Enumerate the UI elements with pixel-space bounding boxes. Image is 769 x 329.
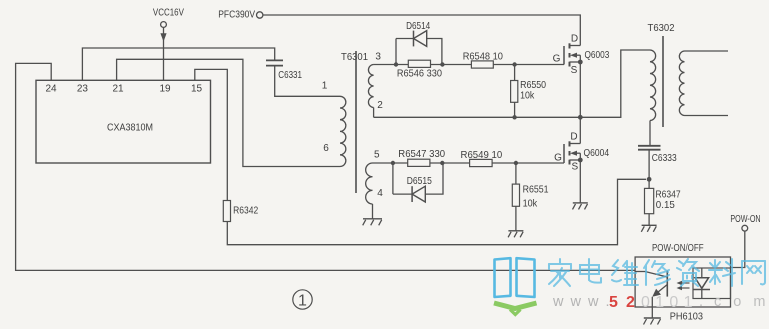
wire R6548 to Q6003 gate xyxy=(493,64,564,66)
label R6551 value 10k xyxy=(523,197,538,209)
wire VCC16V vertical to pin 19 xyxy=(163,27,165,80)
transistor Q6004 xyxy=(564,141,583,164)
svg-text:D6514: D6514 xyxy=(406,20,430,32)
label R6551 xyxy=(523,184,549,196)
optocoupler PH6103 LED inner box xyxy=(693,268,731,299)
svg-text:0: 0 xyxy=(641,294,650,311)
wire C6331 to T6301 pin 1 xyxy=(275,66,340,97)
node junction dot R6546 right xyxy=(440,62,444,66)
label R6550 xyxy=(520,79,546,91)
pin 15 label xyxy=(191,83,203,94)
svg-text:2: 2 xyxy=(377,100,383,111)
pin 6 label xyxy=(323,143,329,154)
svg-text:4: 4 xyxy=(377,188,383,199)
wire midpoint to Q6004 drain xyxy=(579,117,581,143)
svg-text:C6333: C6333 xyxy=(652,152,677,164)
svg-text:R6548 10: R6548 10 xyxy=(463,50,503,62)
svg-text:D6515: D6515 xyxy=(407,175,432,187)
wire pin 15 to R6342 xyxy=(195,69,228,200)
resistor R6547 xyxy=(408,159,430,166)
photo-thyristor collector stub xyxy=(635,271,645,273)
optical coupling arrows xyxy=(677,281,690,291)
ground under R6551 xyxy=(508,231,523,238)
wire T6302 secondary bottom output xyxy=(685,115,729,117)
wire R6342 to current-sense node xyxy=(227,179,646,244)
pin label G Q6004 xyxy=(554,152,562,163)
watermark: book logo xyxy=(495,258,535,297)
node junction dot half-bridge midpoint xyxy=(578,115,583,120)
ground under T6301 pin 4 xyxy=(363,219,382,226)
wire pin 23 to C6331 xyxy=(82,48,274,80)
node junction dot sense node xyxy=(647,177,652,182)
node junction dot R6547 left xyxy=(391,161,395,165)
svg-text:G: G xyxy=(553,53,561,64)
node POW-ON terminal circle xyxy=(742,225,748,231)
svg-text:10k: 10k xyxy=(520,89,535,101)
pin 1 label xyxy=(322,81,328,92)
LED diode of PH6103 xyxy=(694,278,711,299)
label Q6004 xyxy=(584,147,610,159)
svg-text:G: G xyxy=(554,152,562,163)
svg-text:D: D xyxy=(570,131,577,142)
pin label D Q6004 xyxy=(570,131,577,142)
svg-text:T6301: T6301 xyxy=(341,51,368,63)
photo-thyristor of PH6103 xyxy=(645,271,667,297)
svg-text:CXA3810M: CXA3810M xyxy=(107,122,153,134)
capacitor C6333 xyxy=(638,146,661,150)
transformer T6301 secondary winding 3-2 xyxy=(368,65,373,118)
label PH6103 xyxy=(670,311,703,323)
label T6301 xyxy=(341,51,368,63)
svg-text:15: 15 xyxy=(191,83,203,94)
resistor R6551 xyxy=(512,163,519,231)
watermark url 0101 xyxy=(641,294,693,311)
wire POW-ON to optocoupler LED xyxy=(731,231,745,267)
figure number 1 circled xyxy=(293,290,312,310)
node junction dot R6547 right xyxy=(440,161,444,165)
wire R6547 to R6549 xyxy=(430,162,470,164)
svg-text:19: 19 xyxy=(159,83,171,94)
svg-text:T6302: T6302 xyxy=(648,22,675,34)
transformer T6301 secondary winding 5-4 xyxy=(366,163,373,219)
svg-text:21: 21 xyxy=(112,83,124,94)
node VCC16V terminal circle xyxy=(161,22,167,28)
transformer T6301 core xyxy=(355,51,357,193)
wire midpoint rail xyxy=(374,50,650,117)
node junction dot R6546 left xyxy=(394,62,398,66)
svg-text:Q6003: Q6003 xyxy=(585,49,610,61)
diode D6514 xyxy=(414,31,427,47)
label R6547 330 xyxy=(398,148,445,160)
watermark character wei xyxy=(612,260,638,285)
diode D6514 loop wire xyxy=(396,39,442,65)
svg-text:R6549 10: R6549 10 xyxy=(461,149,503,161)
IC label CXA3810M xyxy=(107,122,153,134)
watermark url www xyxy=(552,294,611,310)
diode D6515 loop wire xyxy=(393,163,443,194)
svg-text:2: 2 xyxy=(626,294,635,311)
svg-text:R6547 330: R6547 330 xyxy=(398,148,445,160)
svg-text:c o m: c o m xyxy=(714,294,769,310)
label C6333 xyxy=(652,152,677,164)
svg-text:VCC16V: VCC16V xyxy=(153,7,184,19)
label D6515 xyxy=(407,175,432,187)
transformer T6302 secondary winding xyxy=(679,51,684,116)
svg-text:24: 24 xyxy=(45,83,57,94)
svg-text:PFC390V: PFC390V xyxy=(218,9,255,21)
wire R6347 to ground xyxy=(648,214,650,225)
transistor Q6003 xyxy=(564,43,583,66)
node junction dot R6550 bottom xyxy=(512,115,516,119)
node junction dot R6551 top xyxy=(514,161,518,165)
label R6546 330 xyxy=(397,68,442,80)
pin label D Q6003 xyxy=(571,33,578,44)
svg-text:6: 6 xyxy=(323,143,329,154)
node junction dot R6550 top xyxy=(512,62,516,66)
svg-text:Q6004: Q6004 xyxy=(584,147,610,159)
svg-text:23: 23 xyxy=(77,83,89,94)
ground under Q6004 xyxy=(573,203,588,210)
svg-text:5: 5 xyxy=(609,294,618,311)
wire Q6003 source to midpoint rail xyxy=(579,62,581,117)
pin 2 label xyxy=(377,100,383,111)
resistor R6550 xyxy=(511,65,518,118)
watermark url 52 red xyxy=(609,294,635,311)
svg-text:0.15: 0.15 xyxy=(656,199,675,211)
svg-text:w w w .: w w w . xyxy=(552,294,611,310)
label Q6003 xyxy=(585,49,610,61)
label R6347 value 0.15 xyxy=(656,199,675,211)
svg-text:R6342: R6342 xyxy=(233,205,258,217)
optocoupler PH6103 body xyxy=(635,257,730,307)
svg-text:S: S xyxy=(571,65,578,76)
svg-text:1: 1 xyxy=(322,81,328,92)
pin 4 label xyxy=(377,188,383,199)
label C6331 xyxy=(278,69,302,81)
label R6550 value 10k xyxy=(520,89,535,101)
wire Q6004 source to ground xyxy=(579,160,581,203)
resistor R6549 xyxy=(470,159,493,166)
wire PFC390V rail to Q6003 drain xyxy=(263,15,580,46)
label R6549 10 xyxy=(461,149,503,161)
node VCC16V supply label xyxy=(153,7,184,19)
watermark character dian xyxy=(580,259,601,283)
pin label G Q6003 xyxy=(553,53,561,64)
ground under PH6103 xyxy=(644,318,661,325)
wire pin 21 to T6301 pin 6 xyxy=(117,59,340,166)
wire pin 24 feedback loop xyxy=(16,63,636,270)
pin 24 label xyxy=(45,83,57,94)
label R6342 xyxy=(233,205,258,217)
resistor R6342 xyxy=(223,201,230,222)
label POW-ON/OFF xyxy=(652,242,704,254)
svg-text:0: 0 xyxy=(669,294,678,311)
svg-text:1: 1 xyxy=(298,293,307,310)
resistor R6347 xyxy=(645,188,654,213)
resistor R6546 xyxy=(408,60,430,67)
op-amp U1 CXA3810M IC body xyxy=(36,80,211,163)
pin 23 label xyxy=(77,83,89,94)
wire R6549 to Q6004 gate xyxy=(492,162,564,164)
transformer T6302 core xyxy=(662,36,664,127)
capacitor C6331 xyxy=(266,60,283,65)
transformer T6302 primary winding xyxy=(650,50,656,121)
wire T6302 primary bottom to C6333 xyxy=(649,121,651,146)
diode D6515 xyxy=(412,186,425,202)
pin 21 label xyxy=(112,83,124,94)
watermark url .com xyxy=(699,294,769,310)
watermark character wang xyxy=(742,261,765,284)
label D6514 xyxy=(406,20,430,32)
transformer T6301 primary winding pins 1-6 xyxy=(340,96,346,166)
svg-text:R6546 330: R6546 330 xyxy=(397,68,442,80)
svg-text:1: 1 xyxy=(684,294,693,311)
LED anode stub xyxy=(701,268,703,278)
watermark character jia xyxy=(549,259,571,286)
pin label S Q6003 xyxy=(571,65,578,76)
pin 5 label xyxy=(374,149,380,160)
wire R6546 to R6548 xyxy=(431,64,472,66)
wire C6333 to R6347 xyxy=(648,150,650,189)
label R6548 10 xyxy=(463,50,503,62)
wire winding 5 row xyxy=(373,162,408,164)
watermark: green ribbon xyxy=(494,303,537,315)
svg-text:POW-ON/OFF: POW-ON/OFF xyxy=(652,242,704,254)
label R6347 xyxy=(656,189,681,201)
watermark character zi xyxy=(677,259,699,286)
node POW-ON label xyxy=(730,213,760,225)
svg-text:POW-ON: POW-ON xyxy=(730,213,760,225)
svg-text:PH6103: PH6103 xyxy=(670,311,703,323)
node PFC390V terminal circle xyxy=(257,12,263,18)
svg-text:10k: 10k xyxy=(523,197,538,209)
wire winding 3 row xyxy=(374,64,409,66)
svg-text:3: 3 xyxy=(375,52,381,63)
label T6302 xyxy=(648,22,675,34)
pin 19 label xyxy=(159,83,171,94)
node PFC390V supply label xyxy=(218,9,255,21)
wire T6302 secondary top output xyxy=(685,50,729,52)
watermark character xiu xyxy=(644,260,670,285)
pin label S Q6004 xyxy=(571,161,578,172)
svg-text:D: D xyxy=(571,33,578,44)
svg-text:.: . xyxy=(699,294,703,310)
arrow VCC16V feed xyxy=(160,33,166,41)
pin 3 label xyxy=(375,52,381,63)
svg-text:R6551: R6551 xyxy=(523,184,549,196)
watermark character liao xyxy=(709,259,735,286)
svg-text:C6331: C6331 xyxy=(278,69,302,81)
wire PH6103 emitter to ground xyxy=(651,297,653,318)
svg-text:1: 1 xyxy=(655,294,664,311)
resistor R6548 xyxy=(471,61,493,68)
ground under R6347 xyxy=(641,225,656,232)
svg-text:S: S xyxy=(571,161,578,172)
svg-text:5: 5 xyxy=(374,149,380,160)
